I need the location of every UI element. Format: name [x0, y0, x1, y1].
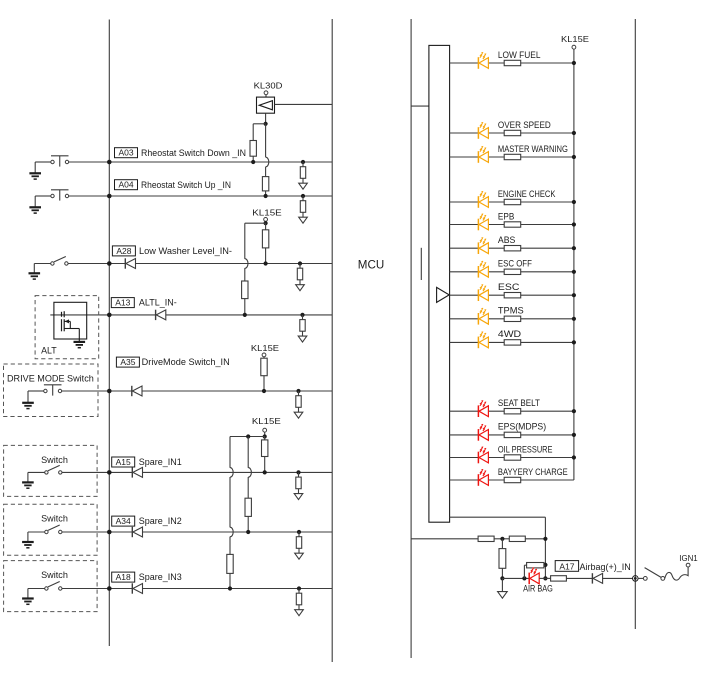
switch SW-A15 (toggle) — [45, 471, 48, 474]
resistor pull-up A15 — [262, 440, 268, 457]
junction rail/OVER_SPEED — [572, 131, 576, 135]
LED AIR BAG — [528, 573, 530, 585]
wire KL15E-1 main drop — [265, 223, 267, 230]
pin A17 — [555, 561, 578, 572]
junction bus/A03 — [107, 160, 112, 165]
pin A15 — [112, 457, 135, 467]
wire row A13 — [50, 314, 332, 316]
resistor R-BAYYERY_CHARGE — [504, 477, 521, 482]
resistor R-ABS — [504, 246, 521, 251]
resistor R-airbag-2 — [509, 536, 525, 541]
wire row A34 — [62, 531, 332, 533]
junction R-A13/row A13 — [243, 313, 247, 317]
wire row A35 — [62, 390, 333, 392]
svg-text:SEAT BELT: SEAT BELT — [498, 398, 540, 408]
resistor R-LOW_FUEL — [504, 60, 521, 65]
resistor R-ENGINE_CHECK — [504, 199, 521, 204]
svg-text:DriveMode Switch_IN: DriveMode Switch_IN — [142, 357, 230, 367]
resistor pull-down A04 with ground arrow — [301, 194, 305, 198]
transistor Q-ALT channel bar — [63, 311, 65, 317]
junction R-A15/row A15 — [263, 470, 267, 474]
wire SW-A28 to ground — [34, 263, 50, 265]
LED TPMS — [477, 313, 479, 325]
resistor R-parallel-airbag — [527, 563, 544, 568]
wire KL30D branch to R-A03 — [253, 123, 265, 125]
junction rail/ABS — [572, 246, 576, 250]
wire R-A34 to row — [247, 516, 249, 532]
wire leg to R-A18 middle — [229, 477, 231, 527]
junction rail/TPMS — [572, 317, 576, 321]
svg-text:Switch: Switch — [41, 570, 68, 580]
wire row SEAT_BELT — [450, 410, 574, 412]
svg-text:A13: A13 — [115, 298, 130, 308]
wire leg to R-A34 lower — [247, 477, 249, 498]
wire parallel right bracket — [544, 564, 546, 566]
LED 4WD — [477, 337, 479, 349]
wire R-airbag-2 to drop — [525, 538, 545, 540]
wire border stub to contact — [638, 577, 643, 579]
junction R-A03/row A03 — [251, 160, 255, 164]
box DRIVE MODE Switch (dashed) — [4, 364, 99, 417]
resistor R-A17 — [551, 576, 567, 581]
wire KL30D main drop lower — [265, 167, 267, 177]
wire parallel left bracket — [523, 565, 525, 578]
wire SW-A35 to ground — [28, 390, 44, 392]
diode D-A17 — [591, 573, 593, 583]
svg-text:KL15E: KL15E — [251, 343, 279, 353]
wire SW-A15 to ground — [28, 471, 45, 473]
ground SW-A03 — [29, 172, 41, 174]
terminal KL30D — [264, 91, 268, 95]
hop over row A03 — [266, 157, 269, 167]
wire row LOW_FUEL — [450, 62, 574, 64]
diode D-A13 — [155, 310, 157, 320]
switch SW-A03 (pushbutton) — [51, 160, 54, 163]
svg-text:OIL PRESSURE: OIL PRESSURE — [498, 444, 553, 454]
wire SW-A18 to ground — [28, 588, 45, 590]
wire R-A17 to diode — [566, 577, 592, 579]
svg-text:A17: A17 — [559, 561, 574, 571]
resistor R-EPB — [504, 222, 521, 227]
LED ESC_OFF — [477, 266, 479, 278]
svg-text:DRIVE MODE Switch: DRIVE MODE Switch — [7, 373, 94, 383]
junction parallel left — [522, 576, 526, 580]
LED ABS — [477, 242, 479, 254]
junction R-A04/row A04 — [264, 194, 268, 198]
pin A35 — [116, 357, 139, 367]
svg-text:ESC: ESC — [498, 282, 520, 292]
svg-text:KL15E: KL15E — [561, 34, 589, 44]
junction R-A18/row A18 — [228, 586, 232, 590]
terminal KL15E second — [262, 353, 266, 357]
ground arrow airbag — [498, 592, 508, 599]
junction branch/R-A34 leg — [246, 434, 250, 438]
svg-text:Airbag(+)_IN: Airbag(+)_IN — [580, 562, 631, 572]
wire row A28 — [68, 263, 332, 265]
resistor R-MASTER_WARNING — [504, 154, 521, 159]
buffer amp symbol — [437, 287, 450, 302]
hop over row A15 (leg A18) — [230, 468, 233, 478]
wire row MASTER_WARNING — [450, 156, 574, 158]
LED SEAT_BELT — [477, 405, 479, 417]
wire row OVER_SPEED — [450, 132, 574, 134]
terminal KL15E rail — [572, 45, 576, 49]
wire R-A28 to row — [265, 248, 267, 264]
wire row A15 — [62, 471, 332, 473]
junction rail/ESC — [572, 293, 576, 297]
terminal KL15E third — [263, 428, 267, 432]
wire row BAYYERY_CHARGE — [450, 479, 574, 481]
ground SW-A18 — [22, 597, 34, 599]
pin A28 — [112, 246, 135, 256]
svg-text:A18: A18 — [116, 572, 131, 582]
junction bus/A04 — [107, 194, 112, 199]
svg-text:Rheostat Switch Down _IN: Rheostat Switch Down _IN — [141, 148, 246, 158]
box Switch A15 (dashed) — [4, 445, 98, 496]
box Switch A18 (dashed) — [4, 561, 98, 612]
LED LOW_FUEL — [477, 57, 479, 69]
wire R-A13 to row — [244, 299, 246, 315]
wire MCU right vertical — [410, 19, 412, 658]
switch SW-A28 (toggle) — [51, 262, 54, 265]
svg-text:A04: A04 — [118, 180, 133, 190]
svg-text:KL15E: KL15E — [252, 207, 282, 217]
wire airbag feed from MCU — [411, 538, 478, 540]
junction drop/parallel-R — [543, 563, 547, 567]
svg-text:A34: A34 — [116, 516, 131, 526]
junction R-A28/row A28 — [264, 261, 268, 265]
svg-text:ALT: ALT — [41, 346, 57, 356]
resistor pull-down A03 with ground arrow — [301, 160, 305, 164]
resistor pull-down A13 with ground arrow — [300, 313, 304, 317]
wire SW-A04 to ground — [35, 195, 51, 197]
resistor R-EPS(MDPS) — [504, 432, 521, 437]
pin A18 — [112, 572, 135, 582]
resistor R-OVER_SPEED — [504, 130, 521, 135]
pin A34 — [112, 516, 135, 526]
wire row 4WD — [450, 341, 574, 343]
wire R-A35 to row — [263, 376, 265, 391]
wire diode to border — [603, 577, 633, 579]
junction rail/ENGINE_CHECK — [572, 200, 576, 204]
junction drop/A17 row — [543, 576, 547, 580]
wire row EPS(MDPS) — [450, 434, 574, 436]
hop over row A15 (leg A34) — [248, 468, 251, 478]
junction bus/A35 — [107, 389, 112, 394]
LED EPS(MDPS) — [477, 429, 479, 441]
svg-text:Spare_IN1: Spare_IN1 — [139, 457, 182, 467]
LED MASTER_WARNING — [477, 151, 479, 163]
resistor pull-up A13 — [242, 281, 248, 299]
wire leg to R-A18 upper — [229, 437, 231, 468]
svg-text:Switch: Switch — [41, 455, 68, 465]
pin A04 — [115, 180, 138, 190]
junction airbag divider — [500, 537, 504, 541]
resistor pull-up A03 — [250, 141, 256, 157]
junction R-A35/row A35 — [262, 389, 266, 393]
wire row OIL_PRESSURE — [450, 457, 574, 459]
wire R-A03 to row — [252, 156, 254, 162]
svg-text:A35: A35 — [120, 357, 135, 367]
IC LED driver U1 — [429, 45, 450, 522]
ground SW-A04 — [29, 206, 41, 208]
junction KL15E-1 node — [264, 221, 268, 225]
svg-text:Low Washer Level_IN-: Low Washer Level_IN- — [139, 246, 232, 256]
wire left section right-hand vertical rail — [331, 19, 333, 662]
pin A13 — [111, 298, 134, 308]
junction R-A34/row A34 — [246, 530, 250, 534]
wire row ENGINE_CHECK — [450, 201, 574, 203]
junction sense/ground node — [500, 576, 504, 580]
junction KL15E-3 node — [263, 434, 267, 438]
wire R-A18 to row — [229, 573, 231, 588]
wire R-A04 to row — [265, 191, 267, 196]
LED ENGINE_CHECK — [477, 196, 479, 208]
svg-text:ESC OFF: ESC OFF — [498, 259, 532, 269]
svg-text:OVER SPEED: OVER SPEED — [498, 120, 551, 130]
wire left MCU input bus (vertical) — [108, 20, 110, 647]
junction rail/SEAT_BELT — [572, 409, 576, 413]
buzzer U-KL30D triangle — [259, 101, 272, 110]
hop over row A34 (leg A18) — [230, 527, 233, 537]
wire KL15E-3 branch bar — [230, 436, 265, 438]
LED ESC — [477, 289, 479, 301]
wire KL15E rail vertical — [573, 63, 575, 480]
resistor R-TPMS — [504, 316, 521, 321]
diode D-A34 — [131, 527, 133, 537]
svg-text:4WD: 4WD — [498, 329, 522, 339]
ground SW-A15 — [22, 481, 34, 483]
svg-text:KL15E: KL15E — [252, 416, 281, 426]
box alternator inner — [54, 302, 87, 339]
resistor R-4WD — [504, 340, 521, 345]
transistor Q-ALT gate bar — [61, 312, 63, 317]
svg-text:KL30D: KL30D — [254, 80, 283, 90]
svg-text:TPMS: TPMS — [498, 306, 524, 316]
switch SW-IGN1 blade — [645, 568, 662, 578]
wire row ESC — [450, 294, 574, 296]
wire between airbag resistors — [494, 538, 509, 540]
svg-text:Spare_IN2: Spare_IN2 — [139, 516, 182, 526]
wire LED-driver bottom to drop — [450, 516, 546, 518]
svg-text:Switch: Switch — [41, 514, 68, 524]
wire MCU right border — [634, 19, 636, 629]
resistor pull-down A18 with ground arrow — [297, 586, 301, 590]
transistor Q-ALT source stub — [64, 328, 79, 330]
terminal KL15E first — [264, 218, 268, 222]
connector crossing at border — [633, 576, 639, 582]
junction rail/MASTER_WARNING — [572, 155, 576, 159]
junction bus/A15 — [107, 470, 112, 475]
resistor R-ESC — [504, 293, 521, 298]
svg-text:ENGINE CHECK: ENGINE CHECK — [498, 189, 556, 199]
wire R-sense to node — [501, 568, 503, 578]
wire stub inside MCU — [420, 248, 422, 280]
junction bus/A34 — [107, 530, 112, 535]
wire A17 row left — [502, 577, 528, 579]
wire IGN1 squiggle — [665, 567, 688, 580]
box ALT (dashed) — [35, 296, 99, 359]
ground SW-A28 — [29, 272, 41, 274]
wire KL15E-1 branch to R-A13 — [245, 222, 266, 224]
junction rail/EPS(MDPS) — [572, 433, 576, 437]
transistor Q-ALT drain stub — [64, 320, 70, 322]
hop over row A28 — [245, 259, 248, 269]
junction KL30D feed node — [264, 122, 268, 126]
junction bus/A13 — [107, 313, 112, 318]
wire ground stem — [501, 578, 503, 591]
switch SW-A34 (toggle) — [45, 530, 48, 533]
LED OVER_SPEED — [477, 127, 479, 139]
wire A17 row to resistor — [539, 577, 550, 579]
junction rail/OIL_PRESSURE — [572, 455, 576, 459]
LED OIL_PRESSURE — [477, 452, 479, 464]
wire row EPB — [450, 224, 574, 226]
pin A03 — [115, 148, 138, 158]
junction rail/LOW_FUEL — [572, 61, 576, 65]
wire divider to R-sense — [501, 539, 503, 549]
switch SW-IGN1 left contact — [643, 577, 647, 581]
terminal IGN1 — [686, 563, 690, 567]
junction rail/ESC_OFF — [572, 270, 576, 274]
svg-text:A28: A28 — [116, 246, 131, 256]
junction bus/A18 — [107, 586, 112, 591]
LED BAYYERY_CHARGE — [477, 474, 479, 486]
ground SW-A35 — [22, 402, 34, 404]
resistor R-airbag-1 — [478, 536, 494, 541]
svg-text:IGN1: IGN1 — [679, 553, 698, 563]
wire leg to R-A18 lower — [229, 537, 231, 555]
svg-text:LOW FUEL: LOW FUEL — [498, 50, 541, 60]
resistor pull-up A35 — [261, 358, 267, 376]
resistor pull-down A35 with ground arrow — [296, 389, 300, 393]
wire R-A15 to row — [264, 457, 266, 473]
LED EPB — [477, 219, 479, 231]
svg-text:BAYYERY CHARGE: BAYYERY CHARGE — [498, 467, 568, 477]
ground ALT — [74, 341, 86, 343]
resistor R-airbag-sense — [499, 549, 506, 569]
wire row A03 — [69, 161, 333, 163]
svg-text:EPS(MDPS): EPS(MDPS) — [498, 422, 546, 432]
svg-text:ABS: ABS — [498, 235, 516, 245]
buzzer U-KL30D box — [257, 97, 275, 113]
diode D-A18 — [131, 583, 133, 593]
wire KL15E-3 main drop — [264, 437, 266, 440]
resistor pull-up A18 — [227, 554, 233, 573]
wire row A18 — [62, 588, 332, 590]
resistor pull-up A04 — [262, 177, 268, 191]
resistor pull-up A28 — [262, 230, 268, 248]
svg-text:Rheostat Switch Up _IN: Rheostat Switch Up _IN — [141, 180, 231, 190]
junction rail/EPB — [572, 222, 576, 226]
switch SW-A35 (pushbutton) — [44, 389, 47, 392]
resistor pull-down A15 with ground arrow — [296, 470, 300, 474]
wire branch to R-A13 lower — [244, 268, 246, 281]
switch SW-A18 (toggle) — [45, 587, 48, 590]
resistor pull-down A34 with ground arrow — [297, 530, 301, 534]
wire row A04 — [69, 195, 333, 197]
switch SW-A04 (pushbutton) — [51, 194, 54, 197]
diode D-A15 — [131, 467, 133, 477]
wire buzzer bottom stem — [265, 113, 267, 124]
box Switch A34 (dashed) — [4, 504, 98, 555]
junction rail/4WD — [572, 340, 576, 344]
wire leg to R-A34 upper — [247, 437, 249, 468]
svg-text:EPB: EPB — [498, 211, 514, 221]
wire row ABS — [450, 247, 574, 249]
svg-text:MASTER WARNING: MASTER WARNING — [498, 144, 568, 154]
svg-text:A15: A15 — [116, 457, 131, 467]
diode D-A28 — [124, 258, 126, 268]
wire row ESC_OFF — [450, 271, 574, 273]
switch SW-IGN1 right contact — [661, 577, 665, 581]
svg-text:A03: A03 — [118, 148, 133, 158]
wire SW-A34 to ground — [28, 531, 45, 533]
resistor pull-down A28 with ground arrow — [298, 261, 302, 265]
wire SW-A03 to ground — [35, 161, 51, 163]
junction bus/A28 — [107, 261, 112, 266]
diode D-A35 — [131, 386, 133, 396]
wire KL30D main drop upper — [265, 124, 267, 157]
svg-text:AIR BAG: AIR BAG — [523, 583, 553, 593]
resistor R-OIL_PRESSURE — [504, 455, 521, 460]
resistor R-ESC_OFF — [504, 269, 521, 274]
wire buzzer output to rail — [275, 103, 333, 105]
wire row TPMS — [450, 318, 574, 320]
ground SW-A34 — [22, 541, 34, 543]
svg-text:MCU: MCU — [358, 257, 384, 271]
resistor pull-up A34 — [245, 498, 251, 516]
wire MCU to LED-driver link — [411, 105, 429, 107]
svg-text:Spare_IN3: Spare_IN3 — [139, 572, 182, 582]
resistor R-SEAT_BELT — [504, 409, 521, 414]
svg-text:ALTL_IN-: ALTL_IN- — [139, 298, 177, 308]
junction drop/top — [543, 537, 547, 541]
